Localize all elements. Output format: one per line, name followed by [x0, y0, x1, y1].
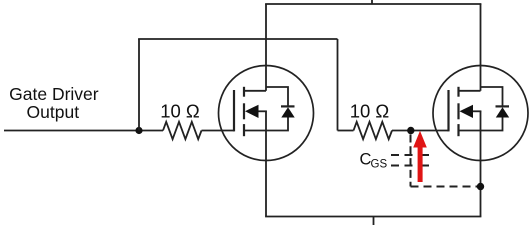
CGS bottom plate: [391, 165, 429, 167]
Q1 channel segment middle: [243, 103, 245, 119]
Q1 body arrow: [245, 105, 259, 118]
Q1 body circle: [219, 66, 314, 161]
wire: bottom source rail: [265, 216, 481, 218]
wire: bottom rail stub: [373, 217, 375, 226]
svg-text:10 Ω: 10 Ω: [160, 100, 200, 121]
junction: gate drive split node: [135, 127, 142, 134]
resistor R2 10 ohm: [354, 122, 393, 139]
Q2 channel segment middle: [457, 103, 459, 119]
Q1 gate bar: [233, 90, 235, 131]
Q2 body diode branch upper: [481, 87, 503, 106]
Q1 body diode branch lower: [266, 118, 288, 131]
wire: branch down to second resistor: [337, 39, 339, 131]
wire: R1 to Q1 gate: [202, 130, 235, 132]
Q2 source stub: [459, 130, 481, 132]
CGS dashed lead horizontal to source node: [411, 186, 481, 188]
Q1 drain lead: [265, 4, 267, 91]
CGS dashed lead vertical: [410, 135, 412, 187]
transistor Q1 (n-channel MOSFET with body diode): [219, 4, 314, 217]
junction: Q2 source node (dashed return): [477, 183, 484, 190]
CGS top plate: [391, 154, 429, 156]
Q2 diode cathode bar: [496, 105, 510, 107]
Q2 drain lead: [480, 4, 482, 91]
Q1 channel segment top: [243, 87, 245, 97]
Q2 body-source connector: [480, 111, 482, 130]
Q2 channel segment top: [457, 87, 459, 97]
Q1 diode cathode bar: [281, 105, 295, 107]
wire: corner to R2: [338, 130, 354, 132]
Q1 body diode branch upper: [266, 87, 288, 106]
label: Gate Driver Output: [9, 84, 99, 122]
transistor Q2 (n-channel MOSFET with body diode): [433, 4, 528, 217]
wire: top branch horizontal: [138, 38, 337, 40]
Q1 body-source connector: [265, 111, 267, 130]
Q2 body stub: [473, 110, 481, 112]
wire: R2 to Q2 gate: [392, 130, 449, 132]
Q2 diode triangle: [496, 107, 509, 117]
Q2 gate bar: [447, 90, 449, 131]
svg-text:GS: GS: [371, 158, 388, 170]
wire: gate driver output horizontal: [4, 130, 163, 132]
Q2 channel segment bottom: [457, 124, 459, 136]
Q1 source lead: [265, 131, 267, 217]
Q2 body circle: [433, 66, 528, 161]
wire: top rail stub to supply: [371, 0, 373, 4]
Q2 source lead: [480, 131, 482, 217]
junction: Q2 gate node: [407, 127, 414, 134]
wire: branch up from junction: [138, 39, 140, 131]
red arrow: gate charge current into CGS: [413, 131, 427, 182]
capacitor CGS (parasitic, dashed): [391, 135, 481, 187]
svg-text:Output: Output: [27, 102, 80, 122]
resistor R1 10 ohm: [163, 122, 202, 139]
Q1 diode triangle: [281, 107, 294, 117]
Q1 body stub: [259, 110, 267, 112]
Q1 source stub: [244, 130, 266, 132]
Q2 drain stub: [459, 90, 481, 92]
Q1 channel segment bottom: [243, 124, 245, 136]
Q2 body arrow: [460, 105, 474, 118]
Q2 body diode branch lower: [481, 118, 503, 131]
svg-text:Gate Driver: Gate Driver: [9, 84, 99, 104]
wire: top drain rail: [265, 3, 481, 5]
label: CGS: [360, 150, 388, 170]
Q1 drain stub: [244, 90, 266, 92]
svg-text:10 Ω: 10 Ω: [350, 100, 390, 121]
